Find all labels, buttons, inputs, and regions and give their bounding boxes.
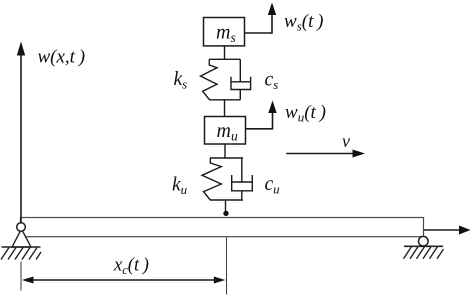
- svg-text:v: v: [342, 131, 350, 151]
- svg-text:xc(t ): xc(t ): [113, 256, 149, 278]
- svg-text:w(x,t ): w(x,t ): [38, 47, 86, 68]
- svg-text:wu(t ): wu(t ): [285, 102, 326, 125]
- svg-text:ws(t ): ws(t ): [284, 11, 324, 34]
